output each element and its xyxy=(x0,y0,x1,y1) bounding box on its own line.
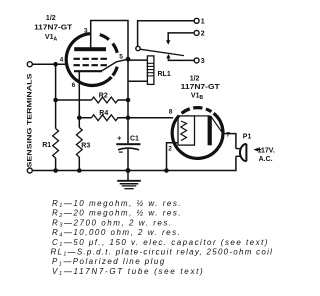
svg-text:R2: R2 xyxy=(99,93,108,100)
svg-text:4: 4 xyxy=(60,57,64,64)
svg-text:R2—20 megohm, ½ w. res.: R2—20 megohm, ½ w. res. xyxy=(52,209,182,219)
svg-text:1/2: 1/2 xyxy=(190,76,200,83)
svg-text:P1: P1 xyxy=(243,134,252,141)
svg-text:+: + xyxy=(117,135,121,142)
svg-text:R3—2700 ohm, 2 w. res.: R3—2700 ohm, 2 w. res. xyxy=(52,218,173,228)
svg-text:RL1—S.p.d.t. plate-circuit rel: RL1—S.p.d.t. plate-circuit relay, 2500-o… xyxy=(51,248,274,258)
svg-text:C1: C1 xyxy=(130,135,139,142)
svg-text:V1—117N7-GT tube (see text): V1—117N7-GT tube (see text) xyxy=(52,267,204,277)
svg-text:6: 6 xyxy=(72,82,76,89)
svg-text:A.C.: A.C. xyxy=(259,156,273,163)
svg-text:1: 1 xyxy=(201,19,205,26)
svg-text:P1—Polarized line plug: P1—Polarized line plug xyxy=(52,257,166,267)
svg-text:5: 5 xyxy=(119,53,123,60)
svg-text:117N7-GT: 117N7-GT xyxy=(34,25,73,32)
svg-text:2: 2 xyxy=(201,31,205,38)
svg-text:RL1: RL1 xyxy=(158,71,171,78)
svg-text:R4—10,000 ohm, 2 w. res.: R4—10,000 ohm, 2 w. res. xyxy=(52,228,181,238)
svg-text:R3: R3 xyxy=(81,142,90,149)
svg-text:117V.: 117V. xyxy=(258,147,275,154)
svg-text:7: 7 xyxy=(226,132,230,139)
svg-text:117N7-GT: 117N7-GT xyxy=(181,84,221,91)
svg-text:C1—50 μf., 150 v. elec. capaci: C1—50 μf., 150 v. elec. capacitor (see t… xyxy=(52,238,269,248)
svg-text:SENSING TERMINALS: SENSING TERMINALS xyxy=(27,74,33,168)
svg-text:R1—10 megohm, ½ w. res.: R1—10 megohm, ½ w. res. xyxy=(52,199,182,209)
svg-text:8: 8 xyxy=(169,109,173,116)
svg-text:R4: R4 xyxy=(99,110,108,117)
svg-text:1/2: 1/2 xyxy=(46,15,56,22)
svg-text:2: 2 xyxy=(168,145,172,152)
svg-text:3: 3 xyxy=(84,27,88,34)
svg-text:3: 3 xyxy=(201,58,205,65)
svg-text:R1: R1 xyxy=(42,142,51,149)
